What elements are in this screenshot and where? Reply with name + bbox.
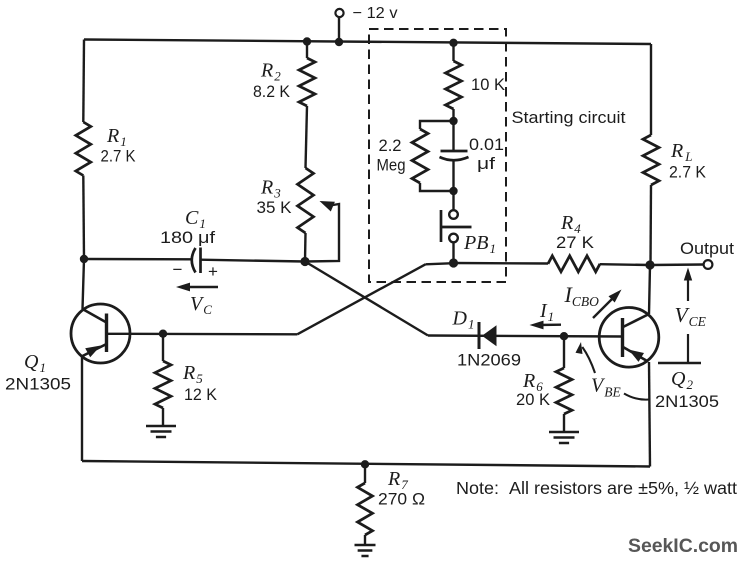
wire kink to node B <box>426 263 454 264</box>
wire R3 wiper loop <box>305 204 339 262</box>
node 10K top on rail <box>449 39 457 47</box>
transistor Q1 <box>71 304 130 363</box>
resistor R3 (with wiper arrow) <box>298 168 314 233</box>
capacitor C1 <box>192 248 196 273</box>
resistor R5 <box>162 334 164 361</box>
svg-text:270 Ω: 270 Ω <box>378 491 425 509</box>
transistor Q2 <box>599 308 659 368</box>
wire R4 to output node <box>600 263 650 266</box>
arrow Vc (capacitor voltage, points left) <box>185 286 218 288</box>
wire diagonal Q1-base row to node B <box>297 264 425 334</box>
svg-text:180: 180 <box>160 229 193 247</box>
wire 10K to node <box>452 109 454 121</box>
svg-text:Output: Output <box>680 239 734 258</box>
node R2 top on rail <box>303 37 311 45</box>
svg-text:− 12 v: − 12 v <box>353 5 398 22</box>
ground below R6 <box>549 432 579 443</box>
resistor 10K (starting circuit) <box>452 43 454 61</box>
node 2.2Meg bottom <box>449 187 457 195</box>
wire diagonal node A to D1 row <box>305 262 428 336</box>
svg-text:8.2 K: 8.2 K <box>253 83 290 101</box>
pushbutton PB1 <box>452 191 454 210</box>
svg-text:0.01: 0.01 <box>469 135 504 154</box>
svg-text:Starting circuit: Starting circuit <box>512 108 626 127</box>
wire node to 0.01uf cap <box>452 121 454 151</box>
svg-text:Meg: Meg <box>377 156 406 175</box>
svg-text:1N2069: 1N2069 <box>457 351 521 370</box>
svg-text:−: − <box>173 260 183 279</box>
resistor R6 <box>563 336 565 368</box>
svg-text:20 K: 20 K <box>516 391 550 409</box>
ground below R7 <box>355 545 376 556</box>
node B (PB1 bottom / R4 row) <box>449 258 458 267</box>
wire right rail (top rail to RL) <box>650 44 652 135</box>
wire bottom rail <box>82 461 650 467</box>
terminal Output <box>704 260 713 269</box>
wire R4 row left <box>454 262 549 265</box>
leader VBE to emitter line <box>624 394 649 400</box>
wire left rail mid (R1 to C1 node) <box>82 176 85 260</box>
terminal -12v supply <box>338 17 340 42</box>
node R5 top <box>159 330 167 338</box>
resistor R4 <box>548 256 600 272</box>
wire Q1 base row <box>107 333 298 336</box>
svg-text:μf: μf <box>198 229 215 247</box>
capacitor 0.01 uf <box>441 150 468 153</box>
svg-text:35 K: 35 K <box>257 199 292 217</box>
node R6 top <box>560 332 568 340</box>
wire D1 row <box>428 336 622 337</box>
svg-text:10 K: 10 K <box>471 75 506 94</box>
ground below R5 <box>146 426 176 437</box>
node output junction <box>645 260 654 269</box>
svg-text:Note: All resistors are ±5%,: Note: All resistors are ±5%, ½ watt <box>456 478 737 498</box>
svg-text:2.2: 2.2 <box>379 136 402 155</box>
svg-text:SeekIC.com: SeekIC.com <box>628 535 738 557</box>
svg-text:2.7 K: 2.7 K <box>669 164 706 182</box>
node A (R3 bottom / C1 / cross-coupling) <box>300 257 309 266</box>
resistor RL <box>643 135 659 185</box>
wire R2 to R3 <box>306 106 308 168</box>
resistor R7 <box>364 464 366 483</box>
node R7 top <box>361 460 369 468</box>
svg-text:μf: μf <box>477 154 495 173</box>
svg-text:2N1305: 2N1305 <box>5 375 71 394</box>
wire to output terminal <box>650 263 704 266</box>
wire top supply rail <box>84 40 651 45</box>
wire Q1 emitter to bottom rail <box>81 357 83 461</box>
wire left rail upper (to R1) <box>82 40 85 123</box>
arrow VBE pointer to base wire <box>576 342 583 354</box>
resistor 2.2 Meg branch <box>420 121 454 129</box>
diode D1 (1N2069) <box>478 322 481 349</box>
wire R3 bottom to node A <box>304 233 307 262</box>
resistor R2 <box>306 42 308 59</box>
node C1-left junction <box>80 255 88 263</box>
svg-text:12 K: 12 K <box>184 386 217 404</box>
dashed box: starting circuit <box>369 29 506 282</box>
svg-text:+: + <box>208 262 218 281</box>
svg-text:2.7 K: 2.7 K <box>101 148 136 166</box>
arrow Vce measurement <box>687 272 689 301</box>
wire C1 row right to node A <box>201 260 306 262</box>
svg-text:27 K: 27 K <box>556 234 594 252</box>
resistor R1 <box>76 122 91 176</box>
wire cap to node <box>452 160 454 191</box>
node 2.2Meg top <box>449 117 457 125</box>
wire Q2 emitter to bottom rail <box>649 362 650 467</box>
svg-text:2N1305: 2N1305 <box>655 392 719 411</box>
wire C1 row left <box>84 258 193 261</box>
